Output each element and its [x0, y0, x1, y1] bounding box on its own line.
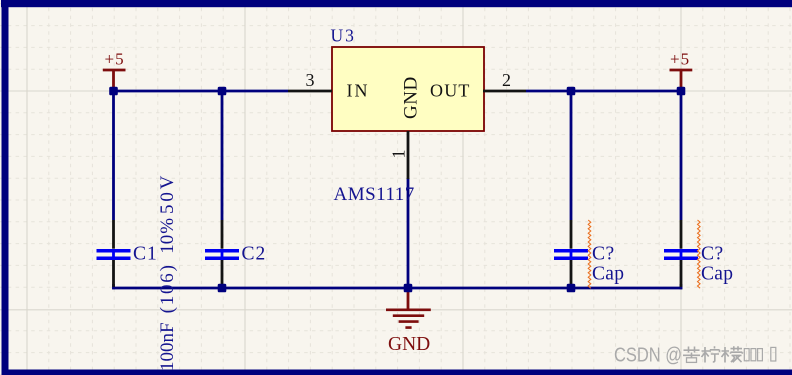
power +5 (right) bar [670, 69, 693, 72]
capacitor C1 plates [112, 249, 115, 260]
wire net +5 input: top rail left segment [114, 90, 289, 93]
capacitor C?b bottom lead [680, 260, 683, 287]
capacitor C2 top lead [221, 220, 224, 249]
capacitor C2 bottom lead [221, 260, 224, 287]
sheet border top [1, 0, 792, 7]
svg-text:2: 2 [502, 70, 511, 90]
capacitor C?a top lead [570, 220, 573, 249]
power +5 (left) stem [112, 70, 115, 91]
svg-text:C?: C? [592, 244, 615, 265]
svg-text:C1: C1 [133, 243, 158, 264]
junction C2 bottom [218, 284, 227, 293]
watermark glyph meng [722, 346, 743, 362]
capacitor C1 top lead [112, 220, 115, 249]
wire GND net: bottom rail [112, 287, 682, 290]
svg-text:IN: IN [347, 81, 370, 101]
capacitor C?a bottom lead [570, 260, 573, 287]
capacitor C1 bottom lead [112, 260, 115, 287]
svg-text:1: 1 [389, 150, 409, 159]
svg-text:U3: U3 [331, 26, 356, 46]
watermark glyph ning [702, 346, 720, 362]
svg-text:GND: GND [388, 334, 430, 355]
watermark glyph ku [683, 347, 700, 363]
wire C1 lower stub [112, 284, 115, 289]
svg-text:CSDN @: CSDN @ [614, 345, 682, 367]
compile-error squiggle at C?b [698, 220, 701, 288]
compile-error squiggle at C?a [588, 220, 591, 288]
capacitor C?b plates [680, 249, 683, 260]
svg-text:+5: +5 [105, 50, 125, 69]
svg-text:AMS1117: AMS1117 [334, 184, 415, 205]
sheet border bottom [2, 370, 792, 375]
op-amp/regulator U3 body [332, 47, 484, 131]
svg-text:3: 3 [306, 70, 315, 90]
svg-text:Cap: Cap [592, 264, 624, 285]
wire net +5 output: top rail right segment [526, 90, 681, 93]
sheet border left [2, 6, 9, 375]
U3 pin 3 lead [288, 90, 332, 93]
svg-text:GND: GND [401, 76, 422, 119]
capacitor C2 plates [221, 249, 224, 260]
junction GND [404, 284, 413, 293]
svg-text:100nF(106)10%50V: 100nF(106)10%50V [157, 173, 178, 371]
ground stem [407, 288, 410, 309]
U3 pin 2 lead [483, 90, 526, 93]
junction C?a bottom [567, 284, 576, 293]
junction +5 right [677, 87, 686, 96]
power +5 (right) stem [680, 70, 683, 91]
ground bars [386, 310, 431, 328]
svg-text:Cap: Cap [701, 264, 733, 285]
wire C?b lower stub [680, 284, 683, 289]
svg-text:+5: +5 [670, 50, 690, 69]
capacitor C?b top lead [680, 220, 683, 249]
power +5 (left) bar [103, 69, 126, 72]
wire C?b branch vertical [680, 91, 683, 220]
junction C2 top [218, 87, 227, 96]
watermark tofu boxes [744, 347, 776, 361]
U3 pin 1 lead [407, 131, 410, 179]
svg-text:OUT: OUT [430, 81, 471, 101]
wire C1 branch vertical [112, 90, 115, 220]
svg-text:C?: C? [701, 244, 724, 265]
capacitor C?a plates [570, 249, 573, 260]
wire C2 branch vertical [221, 91, 224, 220]
junction C?a top [567, 87, 576, 96]
wire C?a branch vertical [570, 91, 573, 220]
junction +5 left [109, 87, 118, 96]
svg-text:C2: C2 [242, 244, 267, 265]
wire U3 pin1 to bottom rail [407, 178, 410, 288]
